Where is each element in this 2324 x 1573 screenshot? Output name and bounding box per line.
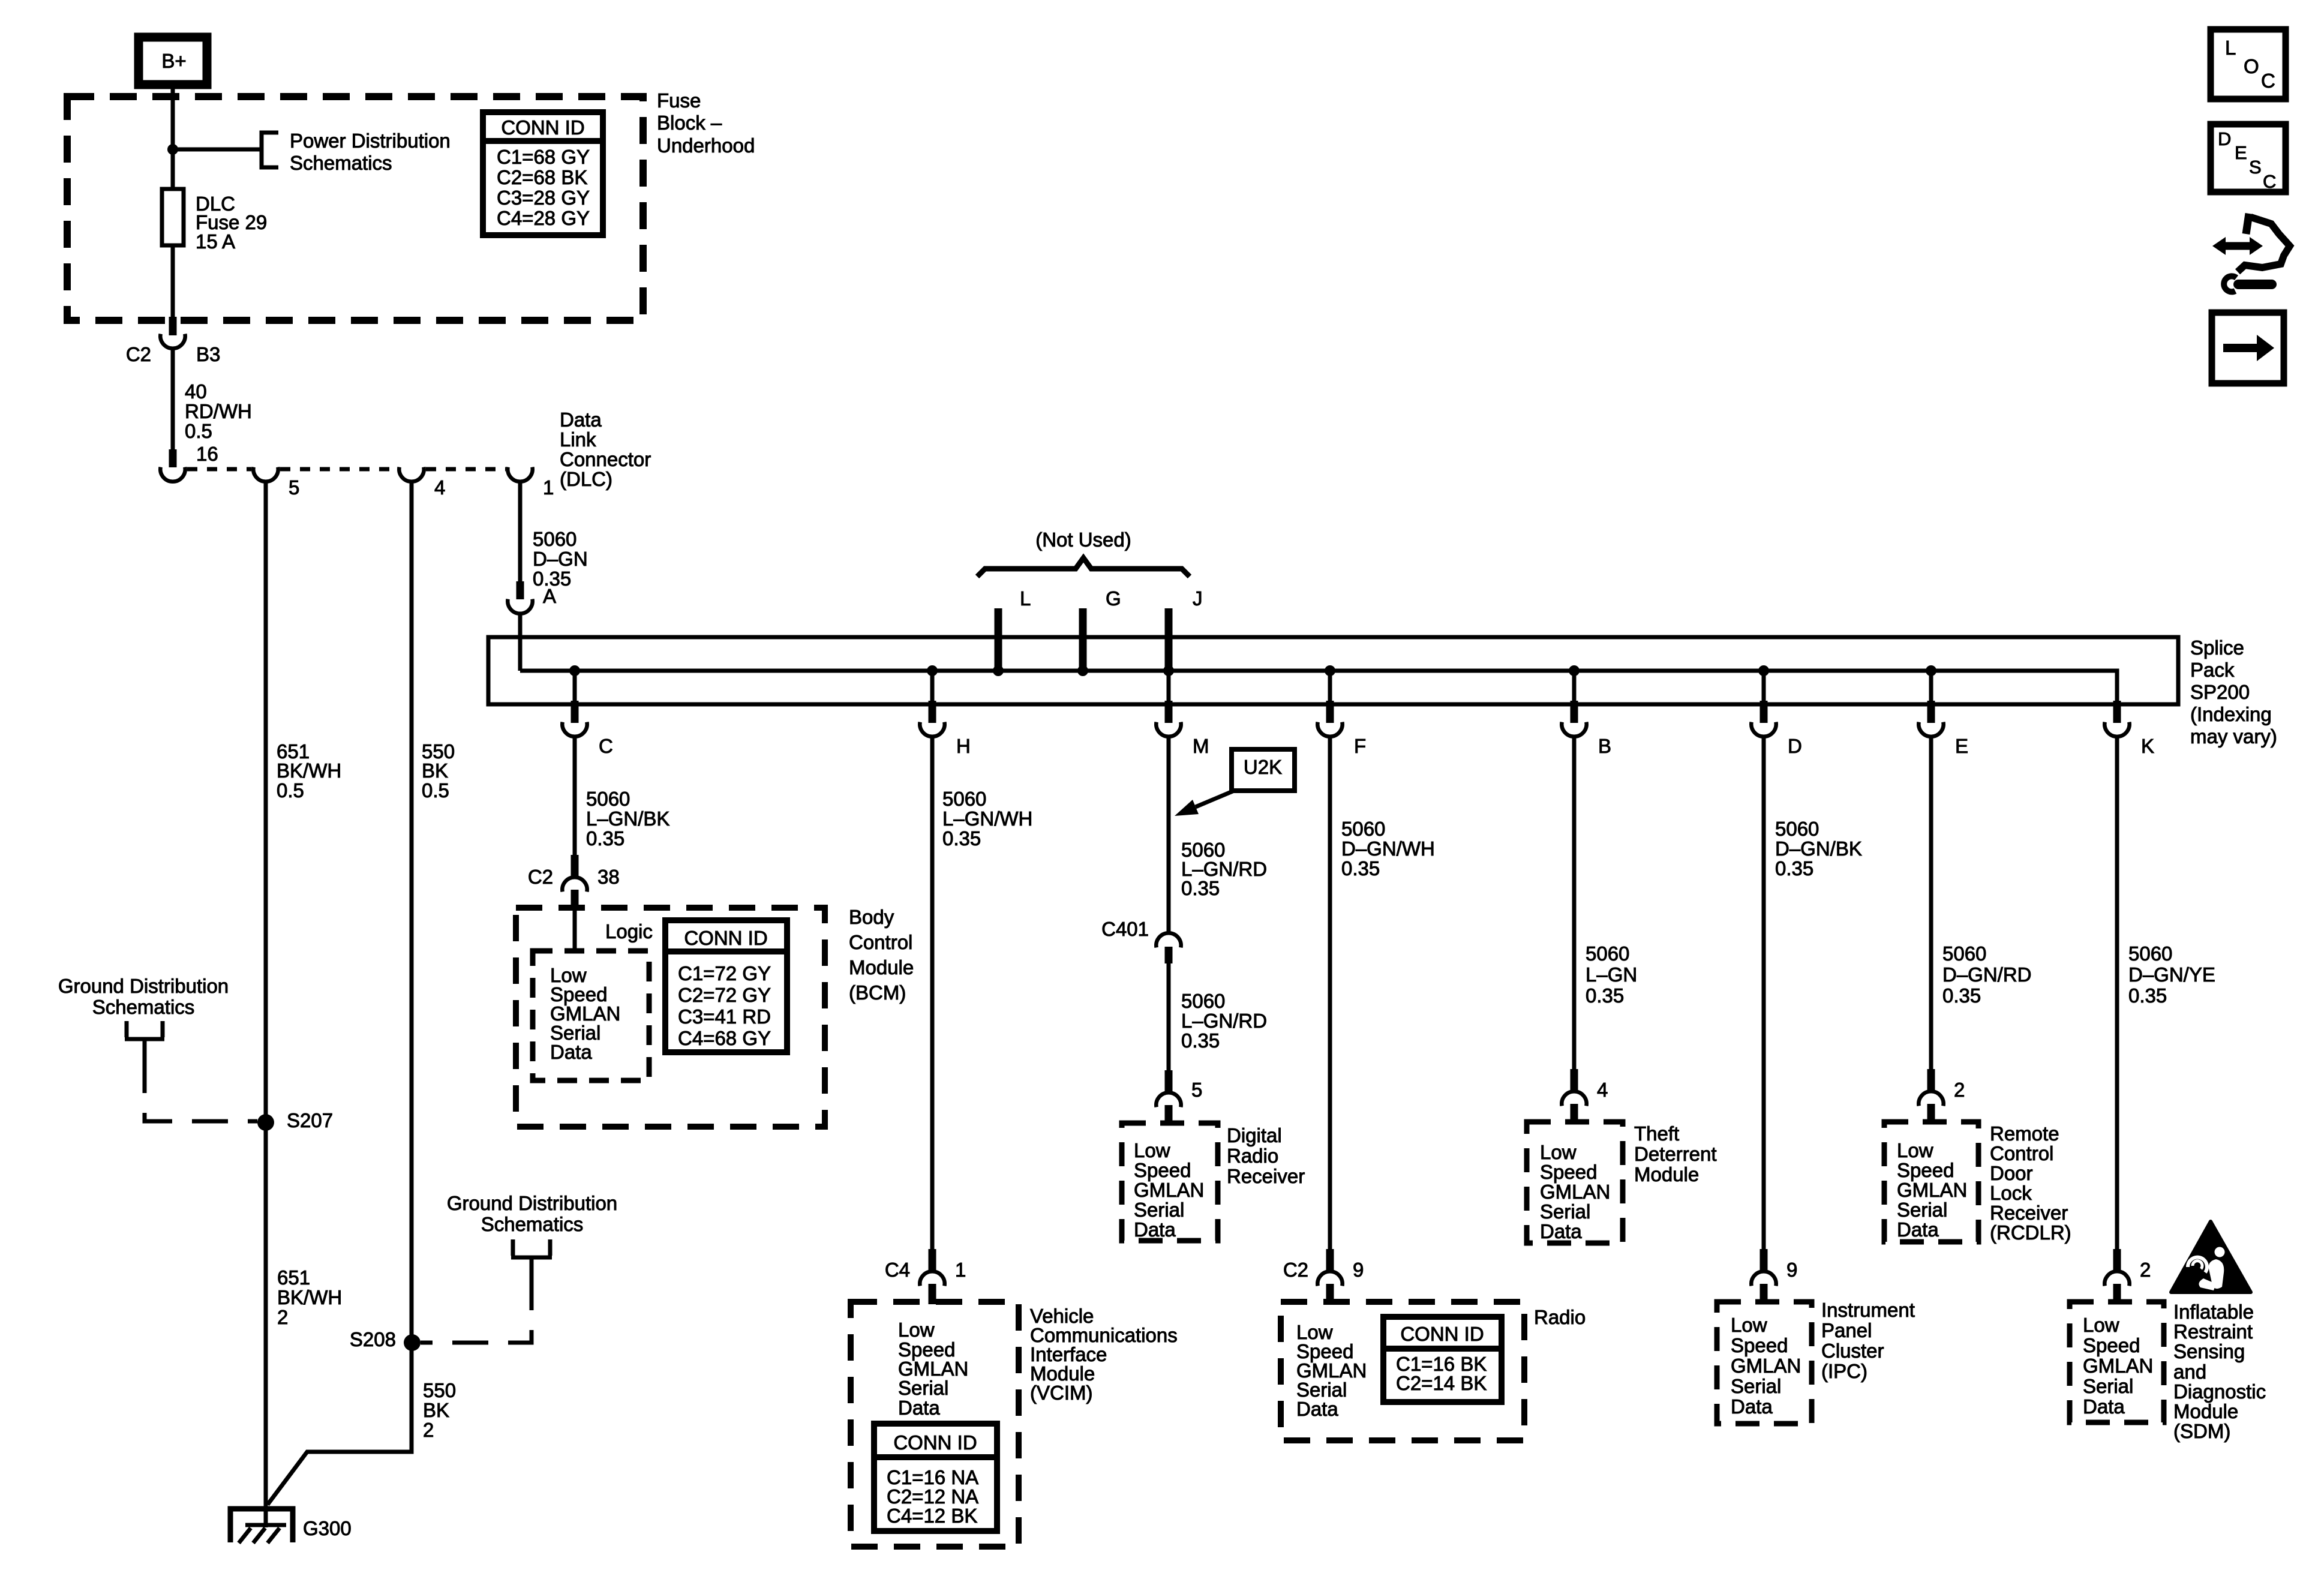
svg-text:(DLC): (DLC) — [560, 468, 612, 490]
wire fuse to box bottom — [171, 245, 175, 317]
svg-text:9: 9 — [1786, 1259, 1797, 1281]
wire drop H from SP200 bus — [930, 671, 935, 702]
svg-text:CONN ID: CONN ID — [501, 116, 584, 139]
junction dot J/M on SP200 bus — [1163, 665, 1174, 676]
svg-text:0.5: 0.5 — [277, 779, 304, 801]
svg-text:Schematics: Schematics — [92, 996, 195, 1018]
svg-text:K: K — [2141, 735, 2154, 757]
svg-text:Radio: Radio — [1534, 1306, 1586, 1328]
connector C2 B3 — [169, 317, 177, 335]
svg-text:RD/WH: RD/WH — [185, 400, 252, 422]
svg-text:C1=68 GY: C1=68 GY — [497, 146, 590, 168]
CONN ID table Radio — [1383, 1317, 1502, 1402]
stub J — [1165, 608, 1173, 671]
svg-text:9: 9 — [1353, 1259, 1364, 1281]
svg-text:Module: Module — [1634, 1163, 1699, 1185]
svg-text:C2: C2 — [528, 866, 553, 888]
svg-text:BK: BK — [423, 1399, 449, 1421]
wire pin1 down 5060 D-GN — [518, 482, 523, 583]
svg-text:(Indexing: (Indexing — [2190, 703, 2272, 725]
svg-text:(SDM): (SDM) — [2173, 1420, 2230, 1442]
svg-text:1: 1 — [955, 1259, 966, 1281]
forward arrow icon box — [2212, 313, 2284, 383]
svg-text:Receiver: Receiver — [1227, 1165, 1305, 1187]
svg-text:Serial: Serial — [1897, 1199, 1947, 1221]
fuse block underhood dashed box — [67, 97, 643, 320]
svg-text:16: 16 — [196, 443, 218, 465]
svg-text:Schematics: Schematics — [481, 1213, 584, 1235]
svg-text:Data: Data — [1540, 1220, 1582, 1242]
svg-text:Data: Data — [560, 409, 602, 431]
svg-text:Data: Data — [1731, 1395, 1773, 1418]
svg-text:C2=72 GY: C2=72 GY — [678, 984, 771, 1006]
svg-text:5: 5 — [1191, 1079, 1202, 1101]
svg-text:D–GN/RD: D–GN/RD — [1942, 963, 2032, 986]
svg-text:Low: Low — [898, 1319, 935, 1341]
svg-text:S208: S208 — [350, 1328, 396, 1350]
svg-text:5060: 5060 — [1586, 942, 1629, 965]
svg-text:4: 4 — [434, 476, 445, 499]
svg-text:G: G — [1106, 587, 1121, 610]
svg-text:Radio: Radio — [1227, 1145, 1278, 1167]
svg-text:Door: Door — [1990, 1162, 2033, 1184]
svg-text:U2K: U2K — [1244, 756, 1282, 778]
svg-text:L–GN: L–GN — [1586, 963, 1637, 986]
connector pin 2 at RCDLR — [1927, 1069, 1935, 1092]
svg-text:Connector: Connector — [560, 448, 651, 470]
svg-text:Lock: Lock — [1990, 1182, 2032, 1204]
svg-text:0.35: 0.35 — [1341, 857, 1380, 879]
svg-text:Data: Data — [2083, 1395, 2125, 1418]
connector C4 1 at VCIM — [929, 1249, 936, 1272]
svg-text:Ground Distribution: Ground Distribution — [447, 1192, 617, 1214]
svg-text:G300: G300 — [303, 1517, 352, 1539]
svg-text:Data: Data — [1134, 1218, 1176, 1241]
svg-text:651: 651 — [277, 1266, 310, 1289]
wire 5060 L-GN/WH — [930, 738, 935, 1250]
DESC icon box — [2211, 124, 2286, 192]
svg-text:C3=41 RD: C3=41 RD — [678, 1005, 771, 1028]
svg-text:O: O — [2244, 55, 2259, 77]
wire drop C from SP200 bus — [573, 671, 577, 702]
wire pin4 down (550 BK) then to ground — [268, 482, 412, 1505]
svg-text:GMLAN: GMLAN — [1731, 1355, 1801, 1377]
svg-text:A: A — [543, 585, 556, 607]
wire 5060 D-GN/BK — [1762, 738, 1766, 1250]
wire drop M from SP200 bus — [1167, 671, 1171, 702]
junction dot — [167, 144, 178, 155]
svg-text:Sensing: Sensing — [2173, 1340, 2245, 1362]
svg-text:(BCM): (BCM) — [849, 981, 906, 1004]
svg-text:Control: Control — [849, 931, 912, 953]
Digital Radio Receiver box — [1122, 1123, 1218, 1241]
svg-text:Splice: Splice — [2190, 637, 2244, 659]
svg-text:Block –: Block – — [657, 112, 722, 134]
svg-text:BK/WH: BK/WH — [277, 760, 341, 782]
stub G — [1079, 608, 1087, 671]
splice S207 — [257, 1114, 274, 1131]
stub L — [995, 608, 1002, 671]
svg-text:5060: 5060 — [1775, 818, 1819, 840]
junction dot L on SP200 bus — [993, 665, 1004, 676]
svg-text:0.35: 0.35 — [1942, 984, 1981, 1007]
svg-text:GMLAN: GMLAN — [1540, 1181, 1610, 1203]
svg-text:(Not Used): (Not Used) — [1035, 529, 1131, 551]
DLC dashed connector line — [187, 467, 251, 472]
svg-text:BK: BK — [422, 760, 448, 782]
wire 5060 L-GN/RD upper — [1167, 738, 1171, 932]
svg-text:Diagnostic: Diagnostic — [2173, 1380, 2266, 1403]
svg-text:CONN ID: CONN ID — [1400, 1323, 1484, 1345]
junction dot H on SP200 bus — [927, 665, 938, 676]
connector cup E at splice pack — [1927, 701, 1935, 723]
svg-text:Restraint: Restraint — [2173, 1320, 2253, 1343]
connector cup B at splice pack — [1571, 701, 1578, 723]
LOC icon box — [2211, 29, 2286, 99]
connector pin 4 at TDM — [1571, 1069, 1578, 1092]
svg-text:B+: B+ — [161, 50, 186, 72]
svg-text:5060: 5060 — [1341, 818, 1385, 840]
svg-text:Speed: Speed — [1897, 1159, 1954, 1181]
svg-text:D–GN: D–GN — [533, 548, 588, 570]
Theft Deterrent box — [1527, 1122, 1623, 1243]
svg-text:5060: 5060 — [2128, 942, 2172, 965]
svg-text:0.35: 0.35 — [1775, 857, 1813, 879]
svg-text:S: S — [2249, 157, 2262, 178]
svg-text:4: 4 — [1597, 1079, 1608, 1101]
connector pin 2 at SDM — [2113, 1249, 2121, 1272]
junction dot G on SP200 bus — [1077, 665, 1088, 676]
svg-text:Control: Control — [1990, 1142, 2053, 1164]
svg-text:0.35: 0.35 — [1586, 984, 1624, 1007]
svg-text:C2: C2 — [126, 343, 151, 365]
svg-text:D–GN/BK: D–GN/BK — [1775, 837, 1862, 860]
svg-text:Speed: Speed — [1134, 1159, 1191, 1181]
connector cup K at splice pack — [2113, 701, 2121, 723]
svg-text:0.35: 0.35 — [1181, 877, 1220, 899]
svg-text:1: 1 — [543, 476, 554, 499]
svg-text:C4=12 BK: C4=12 BK — [887, 1505, 977, 1527]
svg-text:J: J — [1193, 587, 1203, 610]
svg-text:0.35: 0.35 — [942, 827, 981, 849]
B+ battery feed box — [139, 37, 207, 85]
svg-text:2: 2 — [423, 1419, 434, 1441]
svg-text:D: D — [1788, 735, 1802, 757]
VCIM module box — [851, 1302, 1019, 1547]
svg-text:Speed: Speed — [2083, 1334, 2140, 1356]
BCM module box — [516, 908, 825, 1127]
svg-text:C2: C2 — [1283, 1259, 1308, 1281]
svg-text:Serial: Serial — [1731, 1375, 1781, 1397]
svg-text:Cluster: Cluster — [1821, 1340, 1884, 1362]
brace — [977, 558, 1190, 577]
junction dot E on SP200 bus — [1926, 665, 1936, 676]
svg-text:BK/WH: BK/WH — [277, 1286, 342, 1308]
svg-text:Body: Body — [849, 906, 894, 928]
svg-text:L–GN/RD: L–GN/RD — [1181, 1010, 1267, 1032]
svg-text:F: F — [1354, 735, 1366, 757]
svg-text:Serial: Serial — [2083, 1375, 2133, 1397]
svg-text:0.35: 0.35 — [1181, 1029, 1220, 1052]
junction dot C on SP200 bus — [569, 665, 580, 676]
svg-text:GMLAN: GMLAN — [2083, 1355, 2153, 1377]
svg-text:5060: 5060 — [1942, 942, 1986, 965]
power distribution schematics bracket — [262, 133, 278, 167]
svg-text:CONN ID: CONN ID — [893, 1431, 977, 1454]
wire to power distribution bracket — [173, 148, 260, 152]
ground G300 — [230, 1509, 293, 1542]
wire pin5 down (651 BK/WH) — [264, 482, 268, 1527]
svg-text:Module: Module — [849, 956, 914, 978]
svg-text:C3=28 GY: C3=28 GY — [497, 187, 590, 209]
svg-text:L: L — [1020, 587, 1031, 610]
svg-text:C: C — [2261, 70, 2275, 92]
wire drop E from SP200 bus — [1929, 671, 1933, 702]
svg-text:Schematics: Schematics — [290, 152, 392, 174]
svg-text:C2=68 BK: C2=68 BK — [497, 166, 587, 188]
wire B+ to fuse — [171, 85, 175, 191]
svg-text:Instrument: Instrument — [1821, 1299, 1915, 1321]
svg-text:C4=68 GY: C4=68 GY — [678, 1027, 771, 1049]
svg-text:Low: Low — [1897, 1139, 1933, 1161]
wire 5060 D-GN/YE — [2115, 738, 2119, 1250]
svg-text:550: 550 — [423, 1379, 456, 1401]
wire 5060 L-GN/BK — [573, 738, 577, 856]
svg-text:Serial: Serial — [1540, 1200, 1590, 1223]
svg-text:2: 2 — [277, 1306, 288, 1328]
svg-text:5060: 5060 — [533, 528, 577, 550]
connector cup F at splice pack — [1326, 701, 1334, 723]
wire into logic box — [573, 910, 577, 951]
svg-text:38: 38 — [597, 866, 620, 888]
connector cup M at splice pack — [1165, 701, 1173, 723]
svg-text:Speed: Speed — [1540, 1161, 1597, 1183]
splice pack SP200 box — [488, 637, 2178, 704]
junction dot F on SP200 bus — [1325, 665, 1335, 676]
wire 5060 L-GN — [1572, 738, 1577, 1070]
junction dot B on SP200 bus — [1569, 665, 1580, 676]
svg-text:Serial: Serial — [1134, 1199, 1184, 1221]
svg-text:Ground Distribution: Ground Distribution — [58, 975, 229, 997]
svg-text:Link: Link — [560, 428, 596, 451]
svg-text:(RCDLR): (RCDLR) — [1990, 1221, 2071, 1244]
pin 16 stub into DLC — [169, 449, 177, 467]
wire drop D from SP200 bus — [1762, 671, 1766, 702]
bus wire — [520, 671, 2117, 702]
svg-text:S207: S207 — [287, 1109, 333, 1131]
fuse DLC Fuse 29 15 A — [162, 189, 184, 245]
svg-text:C: C — [599, 735, 613, 757]
schematic direction icon (arrow, hood outline, wrench) — [2212, 214, 2290, 292]
svg-text:SP200: SP200 — [2190, 681, 2250, 703]
svg-text:C4: C4 — [885, 1259, 910, 1281]
svg-text:Inflatable: Inflatable — [2173, 1301, 2254, 1323]
svg-text:40: 40 — [185, 380, 207, 403]
junction dot D on SP200 bus — [1758, 665, 1769, 676]
svg-text:Data: Data — [1897, 1218, 1939, 1241]
wire 5060 L-GN/RD lower — [1167, 962, 1171, 1071]
svg-text:C401: C401 — [1101, 918, 1149, 940]
wire 40 RD/WH 0.5 — [171, 350, 175, 451]
connector C2 9 at Radio — [1326, 1249, 1334, 1272]
svg-text:L: L — [2225, 37, 2236, 59]
CONN ID table VCIM — [874, 1424, 997, 1531]
svg-text:Theft: Theft — [1634, 1122, 1679, 1145]
CONN ID table BCM — [665, 920, 787, 1052]
svg-text:D: D — [2218, 128, 2231, 149]
svg-text:C1=72 GY: C1=72 GY — [678, 962, 771, 984]
connector cup C at splice pack — [571, 701, 579, 723]
U2K callout — [1232, 749, 1295, 791]
svg-text:Fuse: Fuse — [657, 89, 701, 112]
connector C2 38 at BCM — [571, 855, 579, 878]
svg-text:Receiver: Receiver — [1990, 1202, 2068, 1224]
connector cup D at splice pack — [1760, 701, 1768, 723]
svg-text:(IPC): (IPC) — [1821, 1360, 1867, 1382]
svg-text:L–GN/WH: L–GN/WH — [942, 807, 1032, 830]
svg-text:B: B — [1598, 735, 1611, 757]
svg-text:15 A: 15 A — [196, 230, 235, 253]
svg-text:Low: Low — [1134, 1139, 1170, 1161]
svg-text:CONN ID: CONN ID — [684, 927, 767, 949]
IPC module box — [1717, 1302, 1812, 1424]
svg-text:Remote: Remote — [1990, 1122, 2059, 1145]
svg-text:0.35: 0.35 — [2128, 984, 2167, 1007]
svg-text:Panel: Panel — [1821, 1319, 1872, 1341]
DLC pin cups 5 4 1 — [253, 467, 278, 482]
svg-text:C4=28 GY: C4=28 GY — [497, 207, 590, 229]
svg-text:Deterrent: Deterrent — [1634, 1143, 1717, 1165]
svg-text:Data: Data — [898, 1397, 940, 1419]
RCDLR module box — [1884, 1122, 1978, 1242]
svg-text:E: E — [1955, 735, 1968, 757]
wire drop F from SP200 bus — [1328, 671, 1332, 702]
svg-text:Data: Data — [1296, 1398, 1338, 1420]
splice S208 — [404, 1334, 421, 1351]
svg-text:Digital: Digital — [1227, 1124, 1282, 1146]
svg-text:GMLAN: GMLAN — [1134, 1179, 1204, 1201]
wire drop B from SP200 bus — [1572, 671, 1577, 702]
svg-text:5060: 5060 — [942, 788, 986, 810]
svg-text:may vary): may vary) — [2190, 725, 2277, 748]
wire 5060 D-GN/RD — [1929, 738, 1933, 1070]
svg-text:2: 2 — [1954, 1079, 1965, 1101]
Logic dashed box — [533, 951, 649, 1080]
svg-text:Low: Low — [1731, 1314, 1767, 1336]
svg-text:Logic: Logic — [605, 920, 653, 942]
svg-text:Data: Data — [550, 1041, 592, 1063]
svg-text:C: C — [2263, 171, 2276, 192]
svg-text:Module: Module — [2173, 1400, 2238, 1422]
svg-text:(VCIM): (VCIM) — [1030, 1382, 1092, 1404]
svg-text:E: E — [2235, 142, 2247, 163]
connector A — [517, 581, 524, 599]
svg-text:Speed: Speed — [1731, 1334, 1788, 1356]
svg-text:5060: 5060 — [586, 788, 630, 810]
svg-text:M: M — [1193, 735, 1209, 757]
svg-text:Underhood: Underhood — [657, 134, 755, 157]
SDM module box — [2070, 1302, 2164, 1422]
svg-text:D–GN/YE: D–GN/YE — [2128, 963, 2215, 986]
svg-text:Pack: Pack — [2190, 659, 2235, 681]
DLC pin16 cup — [160, 467, 185, 482]
CONN ID table fuse block — [483, 112, 603, 235]
svg-text:2: 2 — [2140, 1259, 2151, 1281]
svg-text:L–GN/BK: L–GN/BK — [586, 807, 669, 830]
svg-text:and: and — [2173, 1361, 2206, 1383]
svg-text:Low: Low — [2083, 1314, 2119, 1336]
wire 5060 D-GN/WH — [1328, 738, 1332, 1250]
svg-text:D–GN/WH: D–GN/WH — [1341, 837, 1435, 860]
svg-text:H: H — [956, 735, 971, 757]
connector pin 9 at IPC — [1760, 1249, 1768, 1272]
svg-text:Power Distribution: Power Distribution — [290, 130, 451, 152]
svg-text:Low: Low — [1540, 1141, 1577, 1163]
svg-text:GMLAN: GMLAN — [1897, 1179, 1967, 1201]
connector pin 5 at DRR — [1165, 1070, 1173, 1093]
svg-text:0.5: 0.5 — [422, 779, 449, 801]
svg-text:Serial: Serial — [898, 1377, 948, 1399]
SDM airbag warning triangle — [2171, 1221, 2251, 1292]
svg-text:B3: B3 — [196, 343, 220, 365]
svg-text:5: 5 — [289, 476, 299, 499]
svg-text:C2=14 BK: C2=14 BK — [1396, 1372, 1487, 1394]
Radio module box — [1281, 1302, 1524, 1440]
connector cup H at splice pack — [929, 701, 936, 723]
svg-text:0.35: 0.35 — [586, 827, 624, 849]
svg-text:0.5: 0.5 — [185, 420, 212, 442]
svg-text:5060: 5060 — [1181, 990, 1225, 1012]
